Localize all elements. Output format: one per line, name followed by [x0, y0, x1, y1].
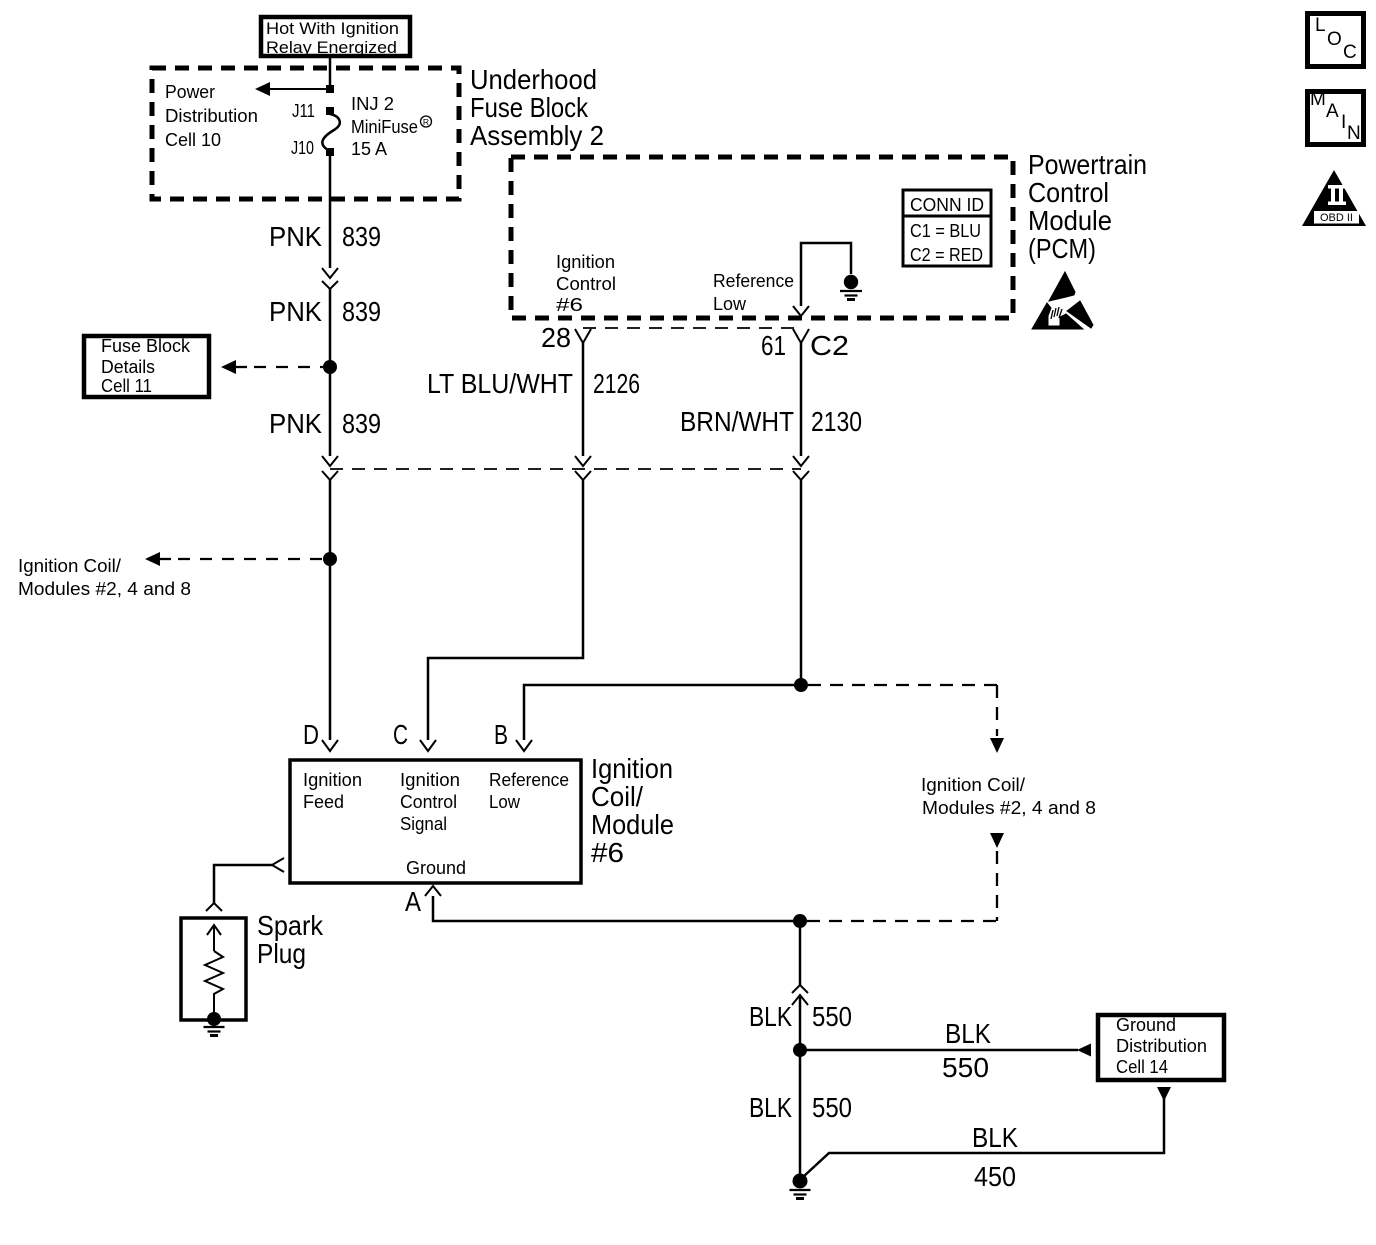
- label: BLK 550 (2): [749, 1092, 852, 1123]
- svg-text:839: 839: [342, 296, 381, 327]
- svg-text:450: 450: [974, 1161, 1016, 1192]
- svg-text:Low: Low: [713, 294, 747, 314]
- svg-text:M: M: [1310, 89, 1326, 110]
- svg-text:Details: Details: [101, 357, 155, 377]
- wire: PNK 839 segment 2: [329, 289, 332, 456]
- svg-text:#6: #6: [591, 837, 624, 868]
- svg-text:OBD II: OBD II: [1320, 212, 1353, 224]
- spark plug resistor: [205, 951, 223, 1013]
- svg-text:Relay Energized: Relay Energized: [266, 39, 397, 57]
- svg-text:(PCM): (PCM): [1028, 233, 1096, 264]
- junction node to ignition coil modules: [323, 552, 337, 566]
- svg-text:550: 550: [812, 1001, 852, 1032]
- CONN ID table: [903, 190, 991, 266]
- dashed branch to other coil modules (top): [808, 685, 1004, 753]
- wire: ground bus down: [799, 921, 802, 985]
- spark plug wire connector at module: [206, 858, 284, 911]
- label: Ignition Coil/Module #6: [591, 753, 674, 868]
- svg-text:#6: #6: [556, 295, 583, 315]
- pin function label: Ignition Feed: [303, 770, 362, 812]
- svg-text:BLK: BLK: [972, 1122, 1018, 1153]
- svg-text:J10: J10: [291, 138, 314, 158]
- svg-text:Underhood: Underhood: [470, 64, 597, 95]
- wire: BLK 450 from ground distribution: [803, 1087, 1171, 1177]
- svg-text:Ground: Ground: [406, 858, 466, 878]
- svg-text:550: 550: [942, 1052, 989, 1083]
- svg-text:Control: Control: [1028, 177, 1109, 208]
- svg-text:15 A: 15 A: [351, 139, 387, 159]
- svg-text:Feed: Feed: [303, 792, 344, 812]
- svg-text:BRN/WHT: BRN/WHT: [680, 406, 794, 437]
- pin 61 connector Y: [793, 329, 809, 343]
- svg-text:Distribution: Distribution: [1116, 1036, 1207, 1056]
- reference box: Fuse Block Details Cell 11: [84, 336, 209, 397]
- label: PNK 839 (2): [269, 296, 381, 327]
- spark plug ground: [204, 1012, 225, 1036]
- locator box MAIN: [1308, 89, 1364, 145]
- wire: 2130 to junction: [800, 480, 803, 685]
- svg-text:Powertrain: Powertrain: [1028, 149, 1147, 180]
- label: Powertrain Control Module (PCM): [1028, 149, 1147, 264]
- svg-text:Spark: Spark: [257, 910, 324, 941]
- arrowhead into pin D: [322, 740, 338, 751]
- svg-text:Control: Control: [556, 274, 616, 294]
- arrow at ground distribution: [1077, 1044, 1091, 1057]
- svg-text:839: 839: [342, 221, 381, 252]
- svg-text:Cell 10: Cell 10: [165, 130, 221, 150]
- svg-text:Ignition: Ignition: [400, 770, 460, 790]
- arrowhead into pin B: [516, 740, 532, 751]
- wire: PNK 839 segment 1: [329, 156, 332, 268]
- svg-text:Control: Control: [400, 792, 457, 812]
- fuse INJ 2 MiniFuse 15 A: [322, 94, 431, 159]
- wire: branch to power distribution with arrow: [255, 82, 330, 96]
- powertrain control module dashed box: [511, 157, 1013, 318]
- label: PNK 839: [269, 221, 381, 252]
- svg-text:INJ 2: INJ 2: [351, 94, 394, 114]
- svg-text:MiniFuse: MiniFuse: [351, 117, 418, 137]
- label: Reference Low: [713, 271, 794, 314]
- ground G103: [790, 1174, 811, 1199]
- dashed branch from other coil modules (bottom): [807, 833, 1004, 921]
- arrowhead into pin A: [425, 886, 441, 896]
- svg-text:28: 28: [541, 322, 571, 353]
- PCM internal reference low wire loop: [801, 243, 851, 306]
- svg-text:LT BLU/WHT: LT BLU/WHT: [427, 368, 573, 399]
- svg-text:Cell 11: Cell 11: [101, 376, 152, 396]
- wire: BRN/WHT 2130 upper: [800, 343, 803, 456]
- svg-text:Modules #2, 4 and 8: Modules #2, 4 and 8: [922, 798, 1096, 818]
- label: BLK 550: [749, 1001, 852, 1032]
- svg-text:BLK: BLK: [945, 1018, 991, 1049]
- svg-text:Ignition: Ignition: [303, 770, 362, 790]
- svg-text:Module: Module: [591, 809, 674, 840]
- label: PNK 839 (3): [269, 408, 381, 439]
- svg-text:2130: 2130: [811, 406, 862, 437]
- label: BLK 550 (horizontal): [942, 1018, 991, 1083]
- svg-text:O: O: [1327, 29, 1342, 50]
- dashed branch arrow to fuse block details: [221, 360, 324, 374]
- terminal J10: [291, 138, 334, 158]
- junction node at branch: [326, 85, 334, 93]
- wire: ground from pin A: [433, 896, 794, 921]
- junction node to fuse block details: [323, 360, 337, 374]
- svg-text:Low: Low: [489, 792, 521, 812]
- svg-text:PNK: PNK: [269, 408, 322, 439]
- wire: BLK 550 to ground distribution: [800, 1049, 1078, 1052]
- wire: PNK segment 3: [329, 480, 332, 740]
- svg-text:Plug: Plug: [257, 938, 306, 969]
- svg-text:C1 = BLU: C1 = BLU: [910, 221, 981, 241]
- label: Ignition Control #6: [556, 252, 616, 315]
- svg-text:Hot With Ignition: Hot With Ignition: [266, 20, 399, 38]
- svg-text:C: C: [1343, 42, 1357, 63]
- label: Power Distribution Cell 10: [165, 82, 258, 150]
- svg-text:I: I: [1341, 112, 1346, 133]
- svg-text:Reference: Reference: [713, 271, 794, 291]
- reference box: Ground Distribution Cell 14: [1098, 1015, 1224, 1080]
- reference label: Ignition Coil Modules 2 4 8 (left): [18, 556, 191, 599]
- spark plug box: [181, 918, 246, 1020]
- pin 28 connector Y: [575, 329, 591, 343]
- arrowhead into pin 61: [793, 306, 809, 316]
- svg-text:61: 61: [761, 330, 786, 361]
- PCM connector dashed line: [583, 327, 801, 329]
- label: BRN/WHT 2130: [680, 406, 862, 437]
- svg-text:Ground: Ground: [1116, 1015, 1176, 1035]
- svg-text:Distribution: Distribution: [165, 106, 258, 126]
- ESD sensitive device symbol: [1032, 272, 1093, 329]
- svg-text:Ignition Coil/: Ignition Coil/: [921, 775, 1025, 795]
- wire: BLK 550 segment: [799, 995, 802, 1050]
- wire: ignition feed from relay into fuse block: [329, 56, 332, 89]
- connector on 2126 wire at crossing: [575, 456, 591, 480]
- svg-text:PNK: PNK: [269, 296, 322, 327]
- svg-text:839: 839: [342, 408, 381, 439]
- svg-text:Modules #2, 4 and 8: Modules #2, 4 and 8: [18, 579, 191, 599]
- pin function label: Reference Low: [489, 770, 569, 812]
- wire: LT BLU/WHT 2126 upper: [582, 343, 585, 456]
- svg-text:J11: J11: [292, 101, 315, 121]
- terminal J11: [292, 101, 334, 121]
- connector on PNK wire at crossing: [322, 456, 338, 480]
- connector on 2130 wire at crossing: [793, 456, 809, 480]
- underhood fuse block dashed box: [152, 68, 459, 199]
- junction node to ground distribution: [793, 1043, 807, 1057]
- svg-text:R: R: [423, 117, 429, 127]
- svg-text:Ignition: Ignition: [591, 753, 673, 784]
- svg-text:Fuse Block: Fuse Block: [101, 336, 191, 356]
- svg-text:Reference: Reference: [489, 770, 569, 790]
- svg-text:C: C: [393, 719, 408, 750]
- label: Underhood Fuse Block Assembly 2: [470, 64, 604, 151]
- svg-text:A: A: [1326, 101, 1339, 122]
- pin function label: Ignition Control Signal: [400, 770, 460, 834]
- svg-text:A: A: [405, 886, 421, 917]
- dashed branch arrow to ignition coil modules (left): [145, 552, 324, 566]
- svg-text:Ignition: Ignition: [556, 252, 615, 272]
- svg-text:Ignition Coil/: Ignition Coil/: [18, 556, 121, 576]
- svg-text:CONN ID: CONN ID: [910, 195, 984, 215]
- junction node reference low split: [794, 678, 808, 692]
- svg-text:BLK: BLK: [749, 1001, 792, 1032]
- svg-text:Signal: Signal: [400, 814, 447, 834]
- wire: reference low to pin B: [524, 685, 801, 740]
- label: LT BLU/WHT 2126: [427, 368, 640, 399]
- wire: 2126 to pin C: [428, 480, 583, 740]
- svg-text:BLK: BLK: [749, 1092, 792, 1123]
- svg-text:Cell 14: Cell 14: [1116, 1057, 1168, 1077]
- svg-text:Module: Module: [1028, 205, 1112, 236]
- flag box: Hot With Ignition Relay Energized: [261, 17, 410, 57]
- label: BLK 450: [972, 1122, 1018, 1192]
- svg-text:Assembly 2: Assembly 2: [470, 120, 604, 151]
- svg-text:2126: 2126: [593, 368, 640, 399]
- svg-text:C2 = RED: C2 = RED: [910, 245, 983, 265]
- spark gap arrow: [207, 925, 221, 951]
- OBD II symbol: [1302, 170, 1366, 226]
- arrowhead into pin C: [420, 740, 436, 751]
- harness connector crossing dashed line: [330, 468, 801, 470]
- inline connector on ground wire: [792, 985, 808, 1005]
- svg-text:Power: Power: [165, 82, 215, 102]
- svg-text:L: L: [1315, 15, 1326, 36]
- inline connector on PNK wire: [322, 268, 338, 289]
- svg-text:N: N: [1347, 123, 1361, 144]
- svg-text:C2: C2: [810, 330, 849, 361]
- junction node ground bus: [793, 914, 807, 928]
- locator box LOC: [1308, 14, 1364, 67]
- svg-text:Fuse Block: Fuse Block: [470, 92, 589, 123]
- ground inside PCM: [840, 275, 862, 300]
- svg-text:B: B: [494, 719, 508, 750]
- module box: Ignition Coil/Module #6: [290, 760, 581, 883]
- wire: BLK 550 to ground: [799, 1050, 802, 1176]
- reference label: Ignition Coil Modules 2 4 8 (right): [921, 775, 1096, 818]
- svg-text:550: 550: [812, 1092, 852, 1123]
- svg-text:D: D: [303, 719, 319, 750]
- svg-text:PNK: PNK: [269, 221, 322, 252]
- svg-text:Coil/: Coil/: [591, 781, 643, 812]
- label: Spark Plug: [257, 910, 324, 969]
